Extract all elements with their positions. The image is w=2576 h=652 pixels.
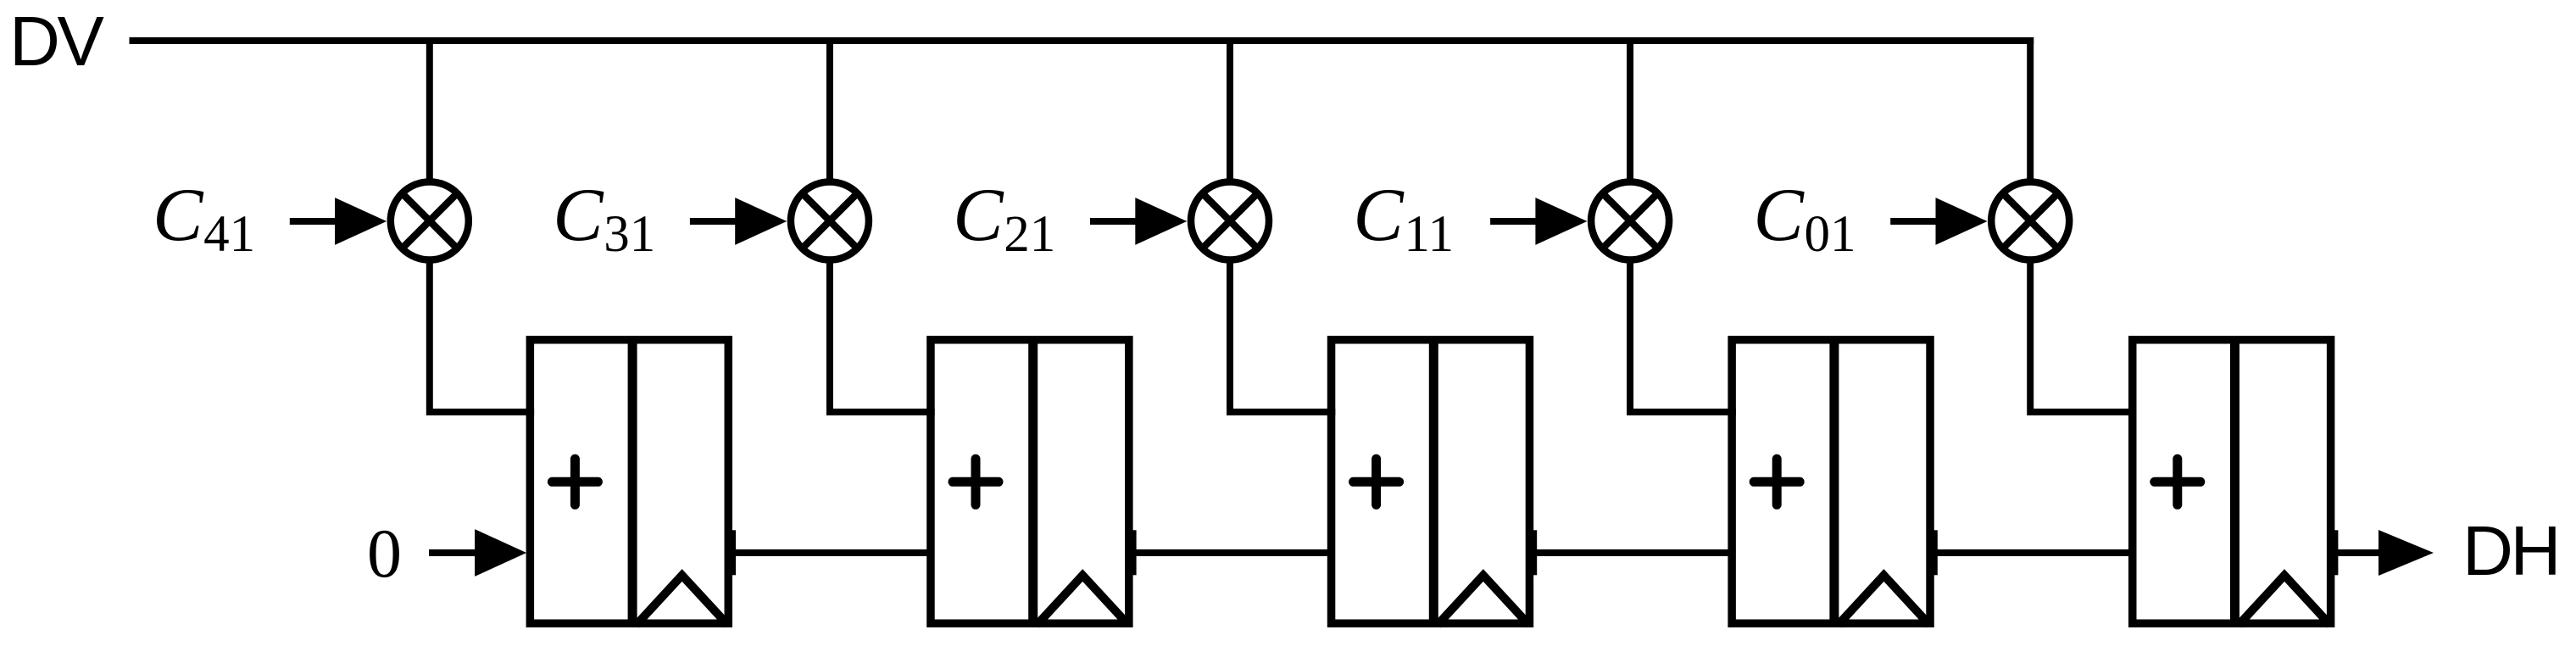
wire vertical drop from DV rail to multiplier 4: [1627, 37, 1633, 182]
multiplier M5 (circle-cross): [1991, 182, 2069, 260]
wire register U5 output to DH: [2330, 549, 2386, 556]
divider U2: [1028, 336, 1038, 627]
clock triangle of register U2: [1037, 576, 1128, 626]
svg-text:DV: DV: [9, 2, 103, 81]
svg-text:C: C: [553, 174, 604, 257]
output port stub U3: [1528, 530, 1538, 575]
multiplier M2 (circle-cross): [791, 182, 869, 260]
wire multiplier 5 output down and right into adder: [2030, 260, 2136, 412]
clock triangle of register U5: [2239, 576, 2330, 626]
adder+register block U5: [367, 336, 2558, 627]
wire DV top rail: [130, 37, 2034, 44]
wire register U3 output to adder U4: [1529, 549, 1732, 556]
wire multiplier 3 output down and right into adder: [1230, 260, 1335, 412]
wire multiplier 4 output down and right into adder: [1630, 260, 1736, 412]
adder+register block U2: [367, 37, 2558, 627]
svg-text:0: 0: [367, 515, 402, 592]
arrow C11 into multiplier 4: [1490, 218, 1562, 225]
svg-text:21: 21: [1004, 206, 1055, 263]
multiplier M3 (circle-cross): [1191, 182, 1269, 260]
output port stub U5: [2329, 530, 2339, 575]
plus sign in adder U5: [2155, 459, 2200, 504]
svg-text:C: C: [153, 174, 204, 257]
svg-text:C: C: [953, 174, 1004, 257]
adder+register block U3: [367, 37, 2558, 627]
wire register U4 output to adder U5: [1930, 549, 2133, 556]
svg-text:31: 31: [604, 206, 655, 263]
adder+register block U1: [367, 37, 2558, 627]
divider U1: [628, 336, 637, 627]
adder+register block U4: [367, 37, 2558, 627]
wire vertical drop from DV rail to multiplier 1: [426, 37, 433, 182]
wire vertical drop from DV rail to multiplier 3: [1227, 37, 1233, 182]
svg-text:C: C: [1754, 174, 1805, 257]
clock triangle of register U3: [1438, 576, 1529, 626]
plus sign in adder U2: [953, 459, 999, 504]
output port stub U4: [1928, 530, 1938, 575]
arrow output DH: [2378, 530, 2434, 576]
clock triangle of register U1: [637, 576, 728, 626]
svg-text:C: C: [1353, 174, 1405, 257]
output port stub U1: [727, 530, 737, 575]
svg-text:01: 01: [1805, 206, 1856, 263]
multiplier M1 (circle-cross): [391, 182, 469, 260]
wire register U2 output to adder U3: [1129, 549, 1332, 556]
wire vertical drop from DV rail to multiplier 2: [826, 37, 833, 182]
divider U4: [1829, 336, 1839, 627]
divider U3: [1429, 336, 1438, 627]
divider U5: [2230, 336, 2239, 627]
arrow C41 into multiplier 1: [290, 218, 362, 225]
plus sign in adder U3: [1354, 459, 1399, 504]
wire multiplier 1 output down and right into adder: [430, 260, 534, 412]
svg-text:DH: DH: [2462, 511, 2558, 590]
output port stub U2: [1127, 530, 1137, 575]
wire multiplier 2 output down and right into adder: [830, 260, 935, 412]
arrow C01 into multiplier 5: [1890, 218, 1962, 225]
wire vertical drop from DV rail to multiplier 5: [2027, 37, 2034, 182]
wire register U1 output to adder U2: [728, 549, 931, 556]
svg-text:11: 11: [1404, 206, 1454, 263]
plus sign in adder U1: [552, 459, 598, 504]
clock triangle of register U4: [1838, 576, 1929, 626]
arrow C31 into multiplier 2: [690, 218, 762, 225]
svg-text:41: 41: [203, 206, 255, 263]
plus sign in adder U4: [1754, 459, 1800, 504]
multiplier M4 (circle-cross): [1591, 182, 1669, 260]
arrow C21 into multiplier 3: [1090, 218, 1162, 225]
arrow 0 into adder U1: [429, 549, 492, 556]
